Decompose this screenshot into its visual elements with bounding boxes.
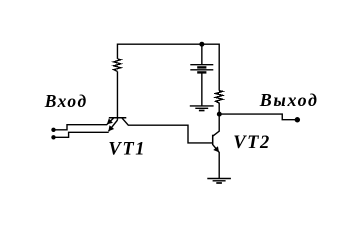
svg-text:VT1: VT1 [108, 140, 146, 160]
svg-text:Вход: Вход [44, 91, 88, 111]
svg-text:Выход: Выход [259, 90, 319, 110]
svg-text:VT2: VT2 [233, 133, 271, 153]
